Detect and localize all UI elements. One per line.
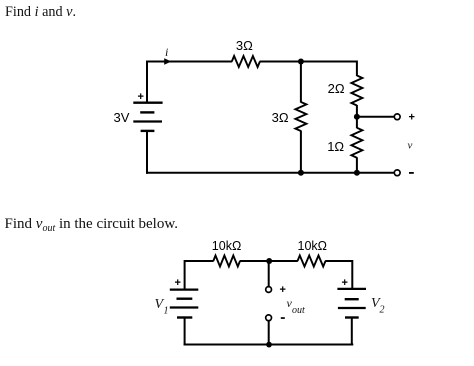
svg-text:3Ω: 3Ω <box>236 38 253 53</box>
svg-text:+: + <box>175 277 181 289</box>
junction node bottom middle <box>298 170 304 176</box>
wire top left vertical (battery to top rail) <box>146 62 148 103</box>
svg-text:10kΩ: 10kΩ <box>212 239 242 253</box>
label minus vout <box>281 317 285 319</box>
wire top rail right segment <box>260 61 357 63</box>
svg-text:1Ω: 1Ω <box>327 139 344 154</box>
junction node between 2ohm and 1ohm <box>354 114 360 120</box>
svg-text:10kΩ: 10kΩ <box>298 239 328 253</box>
wire top rail circuit 2 left segment <box>185 260 214 262</box>
junction node top middle <box>298 59 304 65</box>
terminal vout minus <box>266 315 272 321</box>
svg-text:v: v <box>408 140 413 152</box>
wire top rail circuit 2 middle segment <box>240 260 298 262</box>
wire centre branch upper <box>268 261 270 286</box>
svg-text:i: i <box>165 45 168 59</box>
junction node bottom right <box>354 170 360 176</box>
wire battery bottom stem <box>146 131 148 174</box>
svg-text:out: out <box>292 305 305 316</box>
wire top rail left segment <box>146 61 232 63</box>
terminal vout plus <box>266 287 272 293</box>
junction node top centre <box>266 258 272 264</box>
svg-text:2: 2 <box>380 305 385 316</box>
junction node bottom centre <box>266 342 272 348</box>
wire top rail circuit 2 right segment <box>325 260 352 262</box>
resistor 10k right <box>298 239 328 267</box>
resistor R 3ohm vertical <box>272 102 307 131</box>
battery 3V <box>133 103 162 131</box>
svg-text:+: + <box>409 112 415 124</box>
battery V1 <box>170 290 199 318</box>
wire bottom rail <box>146 172 397 174</box>
wire battery V2 stem <box>351 318 353 346</box>
wire right branch middle <box>356 105 358 128</box>
terminal plus (open circle) <box>394 114 400 120</box>
current arrow i <box>164 45 171 65</box>
battery V2 <box>337 289 366 318</box>
svg-text:3V: 3V <box>114 110 130 125</box>
svg-text:3Ω: 3Ω <box>272 110 289 125</box>
wire middle branch upper <box>300 62 302 103</box>
wire right vertical circuit 2 <box>351 260 353 289</box>
resistor R 3ohm horizontal <box>232 38 260 67</box>
wire middle branch lower <box>300 131 302 173</box>
wire right branch lower <box>356 157 358 173</box>
wire left vertical circuit 2 <box>184 260 186 290</box>
svg-text:+: + <box>138 91 144 103</box>
label V2 <box>371 296 385 316</box>
resistor R 1ohm <box>327 128 362 158</box>
resistor R 2ohm <box>328 76 363 106</box>
terminal minus (open circle) <box>394 170 400 176</box>
label V1 <box>155 297 169 317</box>
svg-text:2Ω: 2Ω <box>328 81 345 96</box>
wire battery V1 stem <box>184 318 186 346</box>
wire to plus terminal <box>357 116 394 118</box>
label minus output <box>409 172 414 174</box>
wire centre branch lower <box>268 321 270 345</box>
wire right branch upper <box>356 61 358 77</box>
wire bottom rail circuit 2 <box>184 344 354 346</box>
svg-text:Find i and v.: Find i and v. <box>5 4 76 20</box>
svg-text:+: + <box>342 277 348 289</box>
svg-text:Find vout in the circuit below: Find vout in the circuit below. <box>5 216 178 234</box>
resistor 10k left <box>212 239 242 267</box>
svg-text:+: + <box>280 284 286 296</box>
svg-text:1: 1 <box>164 306 169 317</box>
label vout <box>287 296 306 316</box>
